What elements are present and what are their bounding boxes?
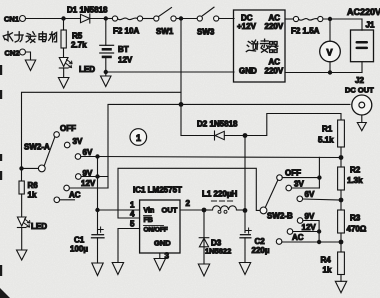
LED D5 (charge indicator)	[59, 58, 95, 75]
svg-text:J2: J2	[355, 76, 364, 85]
svg-text:R4: R4	[321, 256, 332, 265]
svg-text:R1: R1	[322, 125, 333, 134]
junction line2 x181	[179, 102, 184, 107]
capacitor C2	[240, 210, 270, 262]
scan edge artifacts	[0, 65, 10, 298]
wire F2 to SW1	[143, 18, 154, 20]
svg-text:6V: 6V	[83, 148, 93, 157]
svg-text:220V: 220V	[265, 22, 284, 31]
resistor R1	[318, 120, 344, 158]
junction 9V/12V tie	[317, 229, 321, 233]
svg-text:F2 1.5A: F2 1.5A	[291, 27, 320, 36]
ground C1	[92, 263, 103, 276]
wire 6V contact to R2/R3	[303, 199, 341, 200]
junction voltmeter top	[328, 17, 332, 21]
svg-text:OFF: OFF	[60, 124, 76, 133]
marker section circle 1	[130, 129, 147, 146]
svg-text:2: 2	[186, 199, 191, 208]
svg-text:Vin: Vin	[144, 208, 155, 215]
node CN1	[4, 15, 26, 24]
junction R5 top	[61, 16, 65, 20]
wire to fuse F2	[106, 18, 113, 20]
svg-text:FB: FB	[144, 217, 153, 224]
junction BT bottom	[104, 70, 108, 74]
wire D2 junction to R1 top	[245, 114, 341, 136]
svg-text:IC1 LM2575T: IC1 LM2575T	[133, 186, 182, 195]
svg-text:220V: 220V	[265, 67, 284, 76]
junction BT top	[104, 16, 108, 20]
junction AC row	[317, 240, 321, 244]
wire LED to ground	[63, 68, 65, 78]
resistor R3	[338, 200, 367, 242]
junction bus 6V	[95, 154, 99, 158]
svg-text:J1: J1	[366, 21, 375, 30]
wire 12V contact	[293, 231, 319, 233]
rotary switch SW2-A	[24, 124, 96, 203]
ground R4	[335, 281, 346, 293]
svg-text:ON/OFF: ON/OFF	[144, 227, 168, 234]
svg-text:3V: 3V	[294, 180, 304, 189]
junction R2/R3	[339, 198, 344, 203]
svg-text:D1 1N5818: D1 1N5818	[67, 6, 108, 15]
svg-text:1k: 1k	[28, 191, 37, 200]
svg-text:1: 1	[136, 133, 141, 143]
svg-text:LED: LED	[31, 222, 47, 231]
label 水力发电机 (hydro generator) drawn glyphs	[3, 32, 56, 43]
resistor R4	[321, 242, 345, 281]
svg-text:LED: LED	[79, 65, 95, 74]
svg-text:1: 1	[130, 201, 135, 210]
svg-text:L1 220µH: L1 220µH	[202, 190, 238, 199]
svg-text:F2 10A: F2 10A	[113, 27, 139, 36]
wire vertical battery+ drop x181	[180, 19, 182, 136]
svg-text:5: 5	[130, 220, 135, 229]
junction L1 out	[243, 208, 248, 213]
resistor R5	[61, 19, 87, 58]
switch SW3	[197, 7, 219, 36]
wire bus Vin	[97, 157, 99, 234]
svg-text:SW2-B: SW2-B	[267, 212, 293, 221]
svg-text:470Ω: 470Ω	[347, 225, 367, 234]
ground BT	[101, 72, 112, 87]
ground IC1	[154, 259, 165, 271]
svg-text:R6: R6	[28, 181, 39, 190]
svg-text:R2: R2	[350, 166, 361, 175]
junction top rail x181	[179, 16, 183, 20]
wire SW3 to inverter	[219, 18, 234, 20]
svg-text:12V: 12V	[302, 223, 317, 232]
wire 3V contact	[292, 187, 320, 189]
ground LED2	[17, 250, 27, 260]
junction D2	[243, 133, 248, 138]
junction SW2-A common on rail	[19, 166, 23, 170]
wire OFF contact	[282, 177, 319, 179]
junction R1/R2	[339, 155, 344, 160]
svg-text:AC: AC	[269, 58, 281, 67]
ground J2	[357, 115, 366, 131]
wire line2 DC out bus	[108, 104, 350, 188]
svg-text:9V: 9V	[305, 212, 315, 221]
wire pin2 OUT	[180, 209, 204, 211]
svg-text:1N5822: 1N5822	[205, 247, 231, 256]
svg-text:CN2: CN2	[5, 49, 20, 58]
fuse F2 1.5A	[291, 16, 323, 35]
resistor R6	[19, 181, 38, 217]
svg-text:R5: R5	[72, 32, 83, 41]
junction voltmeter bottom	[328, 70, 332, 74]
wire 9V contact to bus and tie	[81, 176, 108, 178]
svg-text:AC: AC	[69, 191, 81, 200]
svg-text:3V: 3V	[73, 137, 83, 146]
svg-text:SW2-A: SW2-A	[24, 143, 50, 152]
wire AC stub	[60, 199, 75, 201]
svg-text:CN1: CN1	[4, 15, 19, 24]
wire IC GND pin3	[159, 253, 161, 258]
diode D3 1N5822	[199, 210, 231, 264]
IC op U1 LM2575T	[130, 186, 191, 261]
svg-text:5.1k: 5.1k	[318, 136, 334, 145]
svg-text:GND: GND	[239, 67, 257, 76]
svg-text:100µ: 100µ	[70, 245, 88, 254]
svg-text:1.3k: 1.3k	[347, 176, 363, 185]
wire LED2 to ground	[21, 228, 23, 251]
wire CN2 to ground	[26, 52, 31, 60]
svg-text:GND: GND	[154, 239, 171, 248]
svg-text:6V: 6V	[305, 190, 315, 199]
svg-text:220µ: 220µ	[252, 246, 270, 255]
label 逆变器 (inverter) drawn glyphs	[246, 39, 278, 52]
svg-text:1k: 1k	[323, 266, 332, 275]
wire SW1 to junction	[176, 18, 181, 20]
wire 12V tie	[69, 187, 108, 189]
junction OFF row	[317, 175, 321, 179]
junction D3 top	[202, 208, 207, 213]
diode D1 1N5818	[64, 6, 109, 24]
svg-text:4: 4	[130, 210, 135, 219]
svg-text:C1: C1	[74, 236, 85, 245]
svg-text:2.7k: 2.7k	[71, 41, 87, 50]
battery BT 12V	[100, 19, 133, 73]
rotary switch SW2-B	[260, 169, 316, 245]
inverter box U1	[234, 10, 286, 82]
diode D2 1N5818	[181, 120, 245, 141]
wire line A feedback top	[98, 157, 342, 158]
wire OFF/3V to line A	[318, 157, 320, 188]
junction R3/R4	[339, 240, 344, 245]
svg-text:D2 1N5818: D2 1N5818	[197, 120, 238, 129]
ground pin5	[112, 263, 123, 275]
wire AC out bottom rail	[285, 72, 362, 74]
wire CN1 to R5 junction	[26, 18, 64, 20]
svg-text:AC: AC	[292, 233, 304, 242]
wire to J1	[323, 18, 362, 20]
connector J1	[351, 19, 375, 73]
capacitor C1	[70, 227, 104, 263]
svg-text:+12V: +12V	[237, 22, 257, 31]
wire common to rail	[22, 167, 39, 169]
ground LED1	[58, 78, 69, 89]
node CN2	[5, 49, 26, 58]
wire D2 junction down to L1 out	[244, 136, 246, 211]
ground D3	[198, 264, 209, 276]
svg-text:12V: 12V	[81, 179, 96, 188]
svg-text:V: V	[327, 48, 333, 58]
svg-text:OUT: OUT	[162, 206, 178, 215]
svg-text:BT: BT	[118, 45, 129, 54]
wire 9V contact	[303, 221, 319, 243]
wire junction to SW3	[181, 18, 197, 20]
svg-text:SW3: SW3	[197, 28, 215, 37]
wire AC contact to R3/R4	[282, 241, 341, 243]
junction bus Vin	[95, 208, 99, 212]
inductor L1 220uH	[202, 190, 245, 214]
svg-text:SW1: SW1	[156, 27, 174, 36]
LED D6 (output indicator)	[17, 217, 47, 231]
ground C2	[239, 263, 250, 275]
svg-text:R3: R3	[350, 214, 361, 223]
svg-text:C2: C2	[255, 237, 266, 246]
ground CN2	[25, 60, 35, 71]
junction bus 9V	[95, 174, 99, 178]
svg-text:12V: 12V	[118, 56, 133, 65]
resistor R2	[338, 158, 364, 201]
fuse F2 10A	[112, 16, 142, 36]
svg-text:OFF: OFF	[285, 169, 301, 178]
connector J2 DC OUT jack	[345, 76, 374, 115]
wire pin5 to ground	[118, 229, 140, 263]
wire inverter to F2 1.5A	[285, 18, 293, 20]
wire line1 SW2 common feed	[22, 92, 182, 181]
wire ground rail to inverter GND	[106, 71, 234, 73]
svg-text:DC OUT: DC OUT	[345, 86, 374, 95]
wire pin4 FB loop	[118, 168, 260, 218]
switch SW1	[154, 8, 176, 37]
wire pin1 Vin	[98, 209, 140, 211]
wire 6V contact to bus	[81, 156, 98, 158]
svg-text:AC220V: AC220V	[347, 7, 380, 17]
voltmeter V	[320, 19, 341, 73]
